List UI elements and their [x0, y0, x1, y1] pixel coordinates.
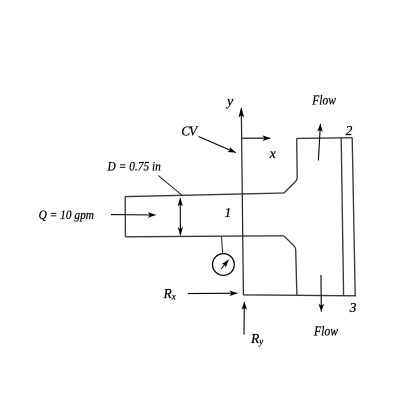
channel upper-left wall [296, 138, 299, 177]
svg-text:x: x [269, 147, 277, 162]
gauge stem [222, 237, 223, 254]
CV leader arrow [199, 137, 236, 153]
pipe upper bevel into channel [284, 177, 297, 193]
svg-text:Q = 10 gpm: Q = 10 gpm [39, 207, 94, 222]
svg-text:2: 2 [346, 123, 353, 138]
Q inlet arrow [111, 214, 156, 216]
pipe left end wall [124, 197, 126, 237]
channel lower-left wall [296, 250, 297, 295]
Rx arrow [188, 292, 238, 294]
pipe lower bevel into channel [284, 236, 296, 250]
channel right inner wall [341, 138, 343, 296]
x-axis arrow [242, 137, 270, 139]
flow out arrow bottom [320, 275, 322, 312]
svg-text:D = 0.75 in: D = 0.75 in [107, 159, 161, 174]
svg-text:Flow: Flow [313, 323, 338, 338]
pipe top wall [125, 193, 284, 197]
svg-text:Flow: Flow [311, 93, 335, 108]
flow out arrow top [318, 124, 320, 161]
pipe bottom wall [125, 236, 283, 237]
svg-text:3: 3 [349, 300, 357, 315]
D leader line [158, 176, 182, 196]
gauge needle [221, 260, 228, 269]
svg-text:y: y [225, 95, 234, 110]
gauge circle [213, 254, 235, 276]
svg-text:1: 1 [225, 205, 232, 220]
channel top line [297, 137, 353, 140]
y-axis arrowhead [239, 108, 244, 118]
bottom boundary line [243, 294, 356, 297]
svg-text:CV: CV [181, 124, 199, 139]
y-axis line [241, 112, 243, 295]
svg-text:Ry: Ry [250, 331, 263, 347]
diameter double arrow [179, 200, 181, 234]
Ry arrow [243, 302, 245, 335]
svg-text:Rx: Rx [163, 286, 176, 302]
channel right outer wall [352, 138, 355, 296]
